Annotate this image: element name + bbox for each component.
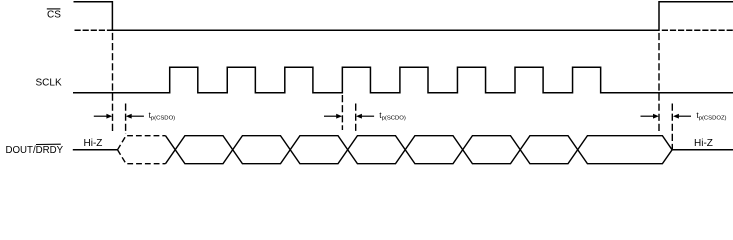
node marker dashed vertical at DOUT drive point x=125.6 bbox=[125, 104, 127, 135]
svg-text:p(SCDO): p(SCDO) bbox=[382, 116, 406, 122]
node marker dashed vertical at DOUT release point x=672.3 bbox=[671, 104, 673, 150]
wire DOUT Hi-Z line (left) bbox=[73, 149, 118, 151]
node marker dashed vertical at CS falling edge x=112.5 bbox=[112, 33, 114, 131]
wire DOUT Hi-Z line (right) bbox=[672, 149, 733, 151]
svg-text:CS: CS bbox=[47, 10, 61, 21]
label tp(CSDO) bbox=[149, 110, 176, 122]
svg-text:Hi-Z: Hi-Z bbox=[84, 138, 103, 149]
wire DOUT dashed bus opening (Hi-Z to driven, dashed diamond) bbox=[118, 136, 166, 164]
annotation tp(CSDO) left arrow bbox=[94, 114, 113, 119]
svg-text:Hi-Z: Hi-Z bbox=[694, 138, 713, 149]
wire CS waveform solid (high, falling edge x=112.4, low, rising edge x=659, high) bbox=[74, 2, 733, 31]
signal label DOUT/DRDY (overline on DRDY) bbox=[6, 144, 64, 156]
wire CS dashed low-state segment (left) bbox=[75, 29, 113, 31]
annotation tp(CSDO) right arrow bbox=[126, 114, 144, 119]
wire DOUT bus data zigzag B (starts ascending at first crossing) bbox=[166, 136, 673, 164]
label tp(SCDO) bbox=[379, 110, 406, 122]
signal label CS (with overline) bbox=[47, 9, 61, 21]
svg-text:p(CSDO): p(CSDO) bbox=[151, 116, 175, 122]
node marker dashed vertical at CS rising edge x=659 bbox=[658, 33, 660, 131]
svg-text:SCLK: SCLK bbox=[36, 78, 62, 89]
node marker dashed vertical at SCLK rising edge x=342.4 bbox=[341, 95, 343, 130]
svg-text:p(CSDOZ): p(CSDOZ) bbox=[699, 116, 727, 122]
label tp(CSDOZ) bbox=[696, 110, 726, 122]
annotation tp(CSDOZ) left arrow bbox=[641, 114, 659, 119]
svg-text:DOUT/DRDY: DOUT/DRDY bbox=[6, 145, 64, 156]
wire SCLK waveform (8 pulses) bbox=[73, 67, 733, 93]
annotation tp(SCDO) left arrow bbox=[324, 114, 342, 119]
wire CS dashed low-state segment (right) bbox=[662, 29, 733, 31]
annotation tp(CSDOZ) right arrow bbox=[673, 114, 691, 119]
wire DOUT bus data zigzag A (starts descending at first crossing) bbox=[166, 136, 673, 164]
signal label SCLK bbox=[36, 78, 62, 89]
annotation tp(SCDO) right arrow bbox=[356, 114, 374, 119]
node marker dashed vertical at DOUT transition x=355.7 bbox=[355, 104, 357, 133]
